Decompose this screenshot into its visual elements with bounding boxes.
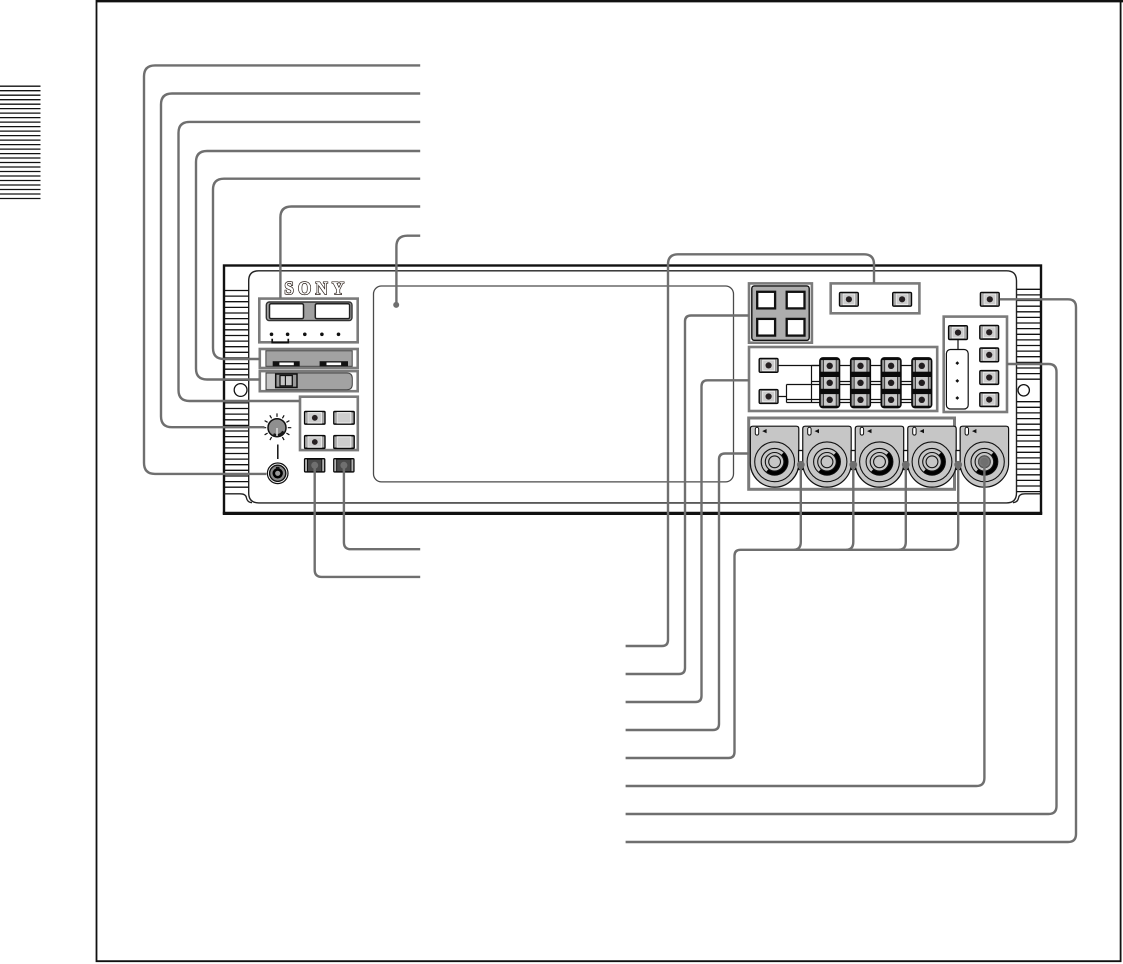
chassis bottom thick edge [223, 512, 1042, 515]
device chassis outer frame [224, 266, 1041, 514]
indicator window bottom-left [757, 319, 775, 336]
menu button [333, 435, 355, 449]
left dark button [304, 458, 326, 473]
audio level knob group frame [749, 418, 955, 489]
wire from assemble button to bus [779, 365, 820, 367]
assemble button [759, 358, 779, 373]
headphones jack [267, 463, 288, 484]
lower cassette slot body [266, 373, 352, 390]
monitor knob [268, 419, 286, 437]
mode button 4 [979, 392, 999, 407]
mode button 3 [979, 370, 999, 385]
LCD screen [374, 286, 734, 482]
monitor knob center cap [979, 456, 991, 468]
timer select button [304, 411, 326, 425]
counter reset button [333, 411, 355, 425]
right rack ear screw hole [1018, 385, 1029, 396]
2x2 button group frame [300, 397, 358, 450]
leader dot on LCD screen [393, 302, 399, 308]
audio level knob CH3 [855, 426, 904, 487]
row2 double wire [787, 382, 922, 385]
knob spacer 4 [956, 451, 960, 470]
monitor knob ticks [263, 413, 292, 440]
upper cassette slot body [266, 351, 352, 367]
remote button [948, 325, 968, 340]
audio level knob CH1 [750, 426, 799, 487]
leader line to display window [280, 207, 420, 299]
mode button 2 [979, 347, 999, 362]
leader line to 2x2 button group [179, 122, 421, 401]
row3 double wire [787, 400, 922, 403]
comb leader stem for CH1-CH4 knobs [626, 465, 959, 758]
lower slot light strip [267, 374, 275, 389]
edit preset button column 3 [881, 357, 902, 408]
indicator window top-right [787, 292, 805, 309]
leader dot on spacer 4 [954, 461, 962, 469]
leader from power button [626, 299, 1076, 842]
left rack ear ridges [225, 291, 249, 488]
transport control box frame [749, 347, 937, 411]
leader from cassette indicator panel [626, 316, 749, 675]
leader dot on monitor knob [980, 458, 988, 466]
mode button 1 [979, 325, 999, 340]
leader dot on right dark button [340, 462, 347, 469]
cassette indicator panel frame [749, 283, 812, 342]
leader from monitor level knob [626, 462, 985, 786]
leader loop from two-button box [626, 254, 874, 646]
print fade bar stripes [0, 86, 41, 198]
audio level knob CH2 [803, 426, 852, 487]
edit preset button column 2 [850, 357, 871, 408]
comb branch CH1 [794, 465, 801, 550]
leader line from right dark button [344, 465, 420, 549]
indicator window top-left [757, 292, 775, 309]
upper slot right handle [320, 361, 348, 366]
cassette indicator panel plate [752, 286, 809, 340]
display left window [270, 304, 304, 319]
leader from knob group frame [626, 454, 749, 731]
leader line to LCD screen [396, 236, 420, 303]
indicator dots row [270, 333, 341, 337]
wiring lines in transport box [779, 366, 922, 403]
display right window [315, 304, 349, 319]
svg-text:SONY: SONY [284, 278, 348, 299]
selector strip marks [955, 361, 959, 400]
left rack ear bottom step [224, 494, 252, 503]
indicator window bottom-right [787, 319, 805, 336]
left rack ear screw hole [234, 384, 247, 397]
leader line to headphones jack [144, 65, 420, 474]
knob to jack link line [277, 445, 279, 460]
right rack ear ridges [1017, 289, 1040, 491]
indicator group bracket [272, 339, 288, 343]
monitor level knob [960, 426, 1009, 487]
leader line to monitor knob [161, 94, 420, 428]
leader dot on spacer 1 [797, 461, 805, 469]
vertical bus wire [811, 366, 813, 403]
selector strip [946, 350, 968, 410]
comb branch CH3 [899, 465, 906, 550]
insert button [759, 389, 779, 404]
upper cassette slot frame [260, 349, 358, 368]
edit preset button column 4 [911, 357, 932, 408]
upper slot left handle [273, 361, 300, 366]
wire from insert button [779, 385, 787, 403]
comb branch CH2 [846, 465, 853, 550]
timer set button [304, 435, 326, 449]
leader line to lower cassette slot [196, 151, 420, 380]
knob spacer 3 [904, 451, 908, 470]
display window box [259, 299, 357, 343]
lower cassette slot frame [260, 371, 358, 391]
audio level knob CH4 [908, 426, 957, 487]
front panel inner plate [249, 271, 1017, 503]
leader from transport control box [626, 380, 749, 702]
power button top right [980, 292, 1000, 307]
leader line from left dark button [315, 465, 421, 577]
leader from control mode box [626, 364, 1057, 814]
two-button box frame [831, 283, 920, 313]
leader dot on spacer 2 [849, 461, 857, 469]
right dark button [333, 458, 355, 473]
wire from remote button to selector strip [957, 339, 959, 349]
edit preset button column 1 [819, 357, 840, 408]
knob spacer 2 [851, 451, 855, 470]
eject button [839, 292, 859, 307]
leader dot on left dark button [311, 462, 318, 469]
knob spacer 1 [799, 451, 803, 470]
leader dot on spacer 3 [902, 461, 910, 469]
right rack ear bottom step [1013, 494, 1041, 503]
display bezel [266, 302, 352, 321]
lower slot switch [276, 374, 297, 387]
row1 wire [812, 365, 922, 367]
standby button [892, 292, 912, 307]
control mode box frame [944, 317, 1007, 412]
leader line to upper cassette slot [213, 179, 420, 359]
